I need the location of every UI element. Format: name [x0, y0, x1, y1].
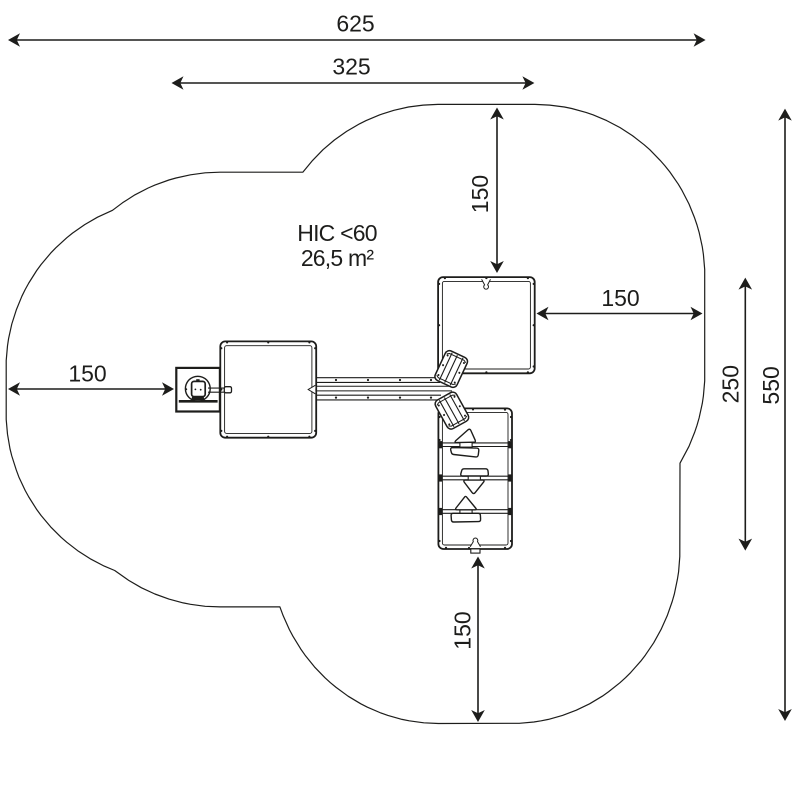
dimension 325 top [175, 82, 532, 84]
dimension 150 bottom vertical [477, 560, 479, 720]
ramp upper (Y element) [433, 349, 469, 389]
climbing wall frame [438, 408, 512, 549]
dimension 550 far right vertical [784, 112, 786, 718]
climbing wall rungs [440, 442, 510, 444]
svg-text:550: 550 [758, 366, 784, 404]
svg-text:625: 625 [336, 11, 374, 37]
top-right platform [438, 277, 535, 373]
left platform [220, 341, 316, 437]
svg-text:150: 150 [601, 285, 639, 311]
ramp lower (Y element) [434, 391, 471, 431]
panel face [196, 379, 199, 381]
dimension 150 upper vertical [496, 111, 498, 271]
climbing wall bottom notch [470, 538, 480, 547]
svg-text:HIC <60: HIC <60 [297, 220, 376, 246]
left platform right-edge pointer [308, 385, 315, 394]
panel seat base [191, 397, 205, 401]
dimension 150 right horizontal [540, 313, 700, 315]
bridge handrails and deck [317, 377, 439, 379]
play panel box [176, 368, 220, 412]
svg-text:26,5 m²: 26,5 m² [301, 245, 375, 271]
panel ground bar [179, 400, 218, 403]
dimension 625 top [11, 39, 703, 41]
top-right platform top notch [482, 279, 491, 289]
svg-text:250: 250 [718, 365, 744, 403]
svg-text:150: 150 [68, 361, 106, 387]
svg-text:150: 150 [450, 611, 476, 649]
climbing wall bottom tab [471, 549, 480, 553]
panel circle [185, 376, 210, 401]
svg-text:325: 325 [332, 54, 370, 80]
dimension 250 right vertical [744, 281, 746, 548]
panel connecting bar [208, 387, 225, 389]
svg-text:150: 150 [467, 175, 493, 213]
climbing holds [455, 429, 475, 442]
dimension 150 left horizontal [11, 388, 171, 390]
safety area outline [6, 104, 705, 723]
